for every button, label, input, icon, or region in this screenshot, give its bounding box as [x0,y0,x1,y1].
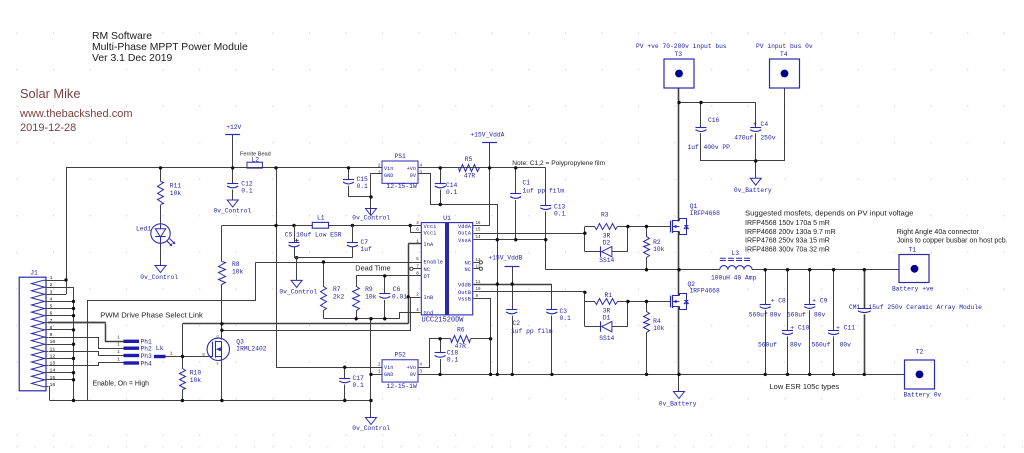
svg-text:NC: NC [465,267,471,273]
svg-text:Ph3: Ph3 [141,353,153,360]
svg-text:+ C4: + C4 [753,121,768,128]
svg-text:C17: C17 [353,375,365,382]
svg-text:Low ESR 105c types: Low ESR 105c types [770,382,840,391]
svg-text:D2: D2 [603,239,611,246]
svg-text:Dead Time: Dead Time [355,263,390,272]
svg-text:1uf: 1uf [361,246,373,253]
svg-text:IRFP4868 300v 70a 32 mR: IRFP4868 300v 70a 32 mR [745,246,830,253]
svg-text:C12: C12 [241,180,253,187]
svg-text:RM Software: RM Software [92,31,152,42]
svg-text:C18: C18 [447,350,459,357]
svg-text:IRFP4668 200v 130a 9.7 mR: IRFP4668 200v 130a 9.7 mR [745,229,836,236]
svg-text:10k: 10k [232,268,244,275]
svg-text:Ph4: Ph4 [141,360,153,367]
svg-text:16: 16 [50,382,56,388]
svg-text:14: 14 [50,368,56,374]
svg-text:10k: 10k [653,246,665,253]
svg-text:C15: C15 [357,176,369,183]
svg-text:Ph2: Ph2 [141,346,153,353]
svg-text:U1: U1 [443,215,451,222]
svg-text:0v_Battery: 0v_Battery [659,401,697,408]
svg-text:47R: 47R [464,172,476,179]
svg-text:T1: T1 [909,247,917,254]
svg-text:12-15-1W: 12-15-1W [387,183,417,190]
svg-text:InB: InB [424,295,434,301]
svg-text:PS2: PS2 [395,352,407,359]
svg-text:0v_Control: 0v_Control [279,288,317,295]
svg-text:11: 11 [476,281,482,285]
svg-text:1uf pp film: 1uf pp film [523,187,565,194]
svg-text:C13: C13 [554,204,566,211]
svg-text:+12V: +12V [226,124,241,131]
svg-text:R1: R1 [605,292,613,299]
svg-text:1uf: 1uf [688,144,700,151]
svg-text:12: 12 [50,353,56,359]
svg-text:IRFP4568 150v 170a 5 mR: IRFP4568 150v 170a 5 mR [745,220,830,227]
svg-text:0v_Battery: 0v_Battery [734,187,772,194]
svg-text:L2: L2 [252,157,260,164]
svg-text:T4: T4 [780,51,788,58]
svg-text:Led1: Led1 [136,226,151,233]
svg-text:0.01: 0.01 [392,293,407,300]
svg-text:15uf 250v Ceramic Array Module: 15uf 250v Ceramic Array Module [869,304,983,311]
svg-text:0v_Control: 0v_Control [352,425,390,432]
svg-text:560uf: 560uf [758,341,777,348]
svg-text:12-15-1W: 12-15-1W [387,383,417,390]
svg-text:IRML2402: IRML2402 [236,346,266,353]
svg-text:80v: 80v [840,341,852,348]
svg-text:8: 8 [50,325,53,331]
svg-text:Note: C1,2 = Polypropylene fil: Note: C1,2 = Polypropylene film [512,160,605,167]
svg-text:+Vo: +Vo [407,365,416,371]
svg-text:IRFP4768 250v 93a 15 mR: IRFP4768 250v 93a 15 mR [745,238,830,245]
svg-text:R7: R7 [333,286,341,293]
svg-text:+ C11: + C11 [836,324,855,331]
svg-text:Vcci: Vcci [424,231,437,237]
svg-text:IRFP4668: IRFP4668 [690,288,720,295]
svg-text:Solar Mike: Solar Mike [20,86,80,101]
svg-text:560uf: 560uf [787,312,806,319]
svg-text:VddB: VddB [458,283,472,289]
svg-text:T3: T3 [675,51,683,58]
svg-text:10k: 10k [653,325,665,332]
svg-text:Multi-Phase MPPT Power Module: Multi-Phase MPPT Power Module [92,42,248,53]
svg-text:250v: 250v [760,134,775,141]
svg-text:Joins to copper busbar on host: Joins to copper busbar on host pcb. [897,237,1008,244]
svg-text:R10: R10 [190,369,202,376]
svg-text:13: 13 [50,361,56,367]
svg-text:15: 15 [476,229,482,233]
svg-text:VssA: VssA [458,238,472,244]
svg-text:GND: GND [384,173,393,179]
svg-text:NC: NC [465,261,471,267]
svg-text:PV +ve 70-200v input bus: PV +ve 70-200v input bus [636,43,727,50]
svg-text:1uf pp film: 1uf pp film [511,328,553,335]
svg-text:VddA: VddA [458,224,472,230]
svg-text:Enable: Enable [424,260,443,266]
svg-text:10: 10 [50,339,56,345]
svg-text:R2: R2 [653,239,661,246]
svg-text:Gnd: Gnd [424,311,434,317]
svg-text:7: 7 [50,318,53,324]
svg-text:Right Angle 40a connector: Right Angle 40a connector [897,229,980,236]
svg-text:5: 5 [50,304,53,310]
svg-text:Ver 3.1 Dec 2019: Ver 3.1 Dec 2019 [92,53,173,64]
svg-text:Q3: Q3 [236,338,244,345]
svg-text:Battery +ve: Battery +ve [892,286,934,293]
svg-text:+15V_VddA: +15V_VddA [470,132,504,139]
svg-text:InA: InA [424,242,434,248]
svg-text:12: 12 [476,265,482,269]
svg-text:Vcci: Vcci [424,224,437,230]
svg-text:D1: D1 [603,314,611,321]
svg-text:10k: 10k [170,190,182,197]
svg-text:80v: 80v [814,312,826,319]
svg-text:4: 4 [50,296,53,302]
svg-text:0V: 0V [410,173,417,179]
svg-text:GND: GND [384,372,393,378]
svg-text:11: 11 [50,346,56,352]
svg-text:100uH 40 Amp: 100uH 40 Amp [711,275,757,282]
svg-text:400v PP: 400v PP [704,144,731,151]
svg-text:15: 15 [50,375,56,381]
svg-text:UCC21520DW: UCC21520DW [422,316,465,324]
svg-text:+15V_VddB: +15V_VddB [488,255,522,262]
svg-text:L1: L1 [317,215,325,222]
svg-text:0.1: 0.1 [554,211,566,218]
svg-text:R9: R9 [365,286,373,293]
svg-text:Battery 0v: Battery 0v [904,392,942,399]
svg-text:R8: R8 [232,261,240,268]
svg-text:C14: C14 [446,182,458,189]
svg-text:10k: 10k [365,293,377,300]
svg-text:2k2: 2k2 [333,293,345,300]
svg-text:C16: C16 [708,117,720,124]
svg-text:PV input bus 0v: PV input bus 0v [756,43,813,50]
svg-text:Lk: Lk [156,345,164,352]
svg-text:470uf: 470uf [734,134,753,141]
svg-text:PS1: PS1 [395,153,407,160]
svg-text:0v_Control: 0v_Control [214,208,252,215]
svg-text:R11: R11 [170,182,182,189]
svg-text:14: 14 [476,236,482,240]
svg-text:10k: 10k [190,377,202,384]
svg-text:Vin: Vin [384,166,393,172]
svg-text:0.1: 0.1 [447,357,459,364]
svg-text:3: 3 [50,289,53,295]
svg-text:OutA: OutA [458,231,472,237]
svg-text:C5 10uf Low ESR: C5 10uf Low ESR [285,231,342,238]
svg-text:80v: 80v [770,312,782,319]
svg-text:R3: R3 [601,212,609,219]
svg-text:VssB: VssB [458,297,472,303]
svg-text:PWM Drive Phase Select Link: PWM Drive Phase Select Link [100,310,203,319]
svg-text:R5: R5 [465,156,473,163]
svg-text:+ C10: + C10 [790,324,809,331]
svg-text:6: 6 [50,311,53,317]
svg-text:13: 13 [476,259,482,263]
svg-text:0.1: 0.1 [357,183,369,190]
svg-text:10: 10 [476,288,482,292]
svg-text:0v_Control: 0v_Control [352,215,390,222]
svg-text:16: 16 [476,222,482,226]
svg-text:2: 2 [50,282,53,288]
svg-text:R4: R4 [653,318,661,325]
svg-text:+ C8: + C8 [771,298,786,305]
svg-text:Enable, On = High: Enable, On = High [93,380,150,387]
svg-text:SS14: SS14 [599,335,614,342]
svg-text:T2: T2 [916,349,924,356]
svg-text:C2: C2 [513,320,521,327]
svg-text:+ C9: + C9 [812,298,827,305]
svg-text:CM1: CM1 [849,304,861,311]
svg-text:DT: DT [424,274,431,280]
svg-text:SS14: SS14 [599,257,614,264]
svg-text:C1: C1 [523,179,531,186]
svg-text:0.1: 0.1 [446,189,458,196]
svg-text:0.1: 0.1 [241,187,253,194]
svg-text:80v: 80v [790,341,802,348]
svg-text:IRFP4668: IRFP4668 [690,210,720,217]
svg-text:560uf: 560uf [749,312,768,319]
svg-text:NC: NC [424,267,430,273]
svg-text:J1: J1 [30,269,38,276]
svg-text:C7: C7 [361,239,369,246]
svg-text:0.1: 0.1 [560,315,572,322]
svg-text:0v_Control: 0v_Control [140,274,178,281]
svg-text:R6: R6 [457,327,465,334]
svg-text:www.thebackshed.com: www.thebackshed.com [19,108,133,120]
svg-text:L3: L3 [732,250,740,257]
svg-text:Suggested mosfets, depends on: Suggested mosfets, depends on PV input v… [745,208,913,217]
svg-text:0.1: 0.1 [353,382,365,389]
svg-text:Vin: Vin [384,365,393,371]
svg-text:0V: 0V [410,372,417,378]
svg-text:+Vo: +Vo [407,166,416,172]
svg-text:9: 9 [50,332,53,338]
svg-text:C6: C6 [393,286,401,293]
svg-text:OutB: OutB [458,290,472,296]
svg-text:2019-12-28: 2019-12-28 [20,122,76,134]
svg-text:1: 1 [50,275,53,281]
svg-text:C3: C3 [560,308,568,315]
svg-text:560uf: 560uf [812,341,831,348]
